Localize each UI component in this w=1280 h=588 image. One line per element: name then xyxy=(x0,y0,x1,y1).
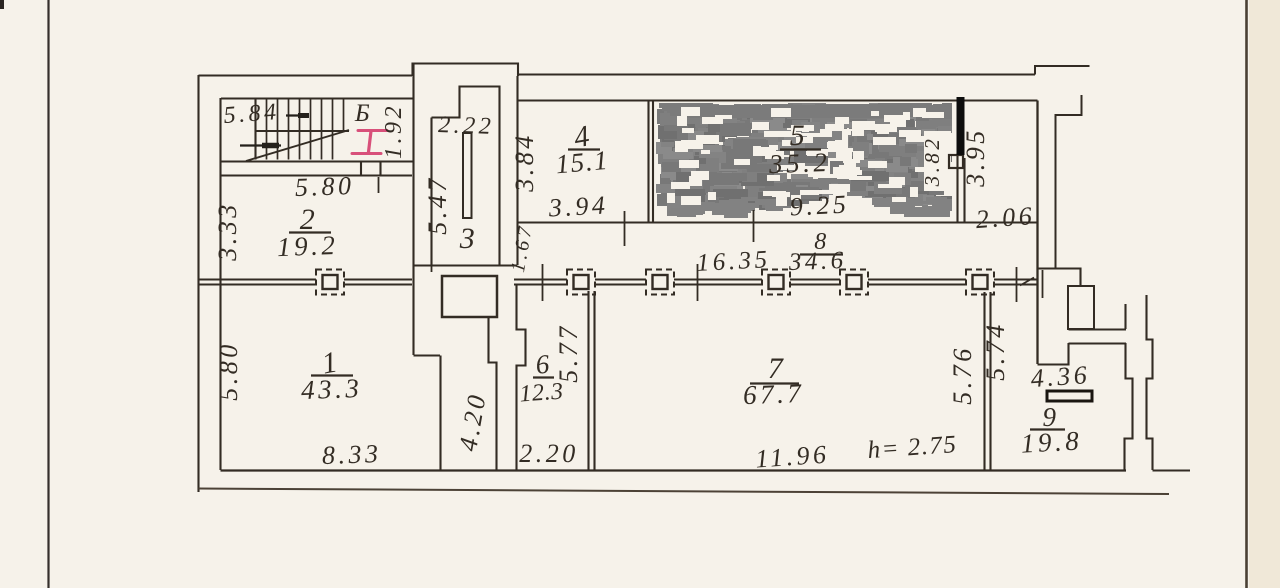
svg-text:12.3: 12.3 xyxy=(519,379,565,408)
svg-text:19.8: 19.8 xyxy=(1020,425,1083,458)
svg-text:16.35: 16.35 xyxy=(696,246,771,277)
svg-text:5.74: 5.74 xyxy=(981,321,1010,381)
svg-text:3.94: 3.94 xyxy=(547,190,609,222)
svg-text:15.1: 15.1 xyxy=(554,145,610,180)
svg-text:5.80: 5.80 xyxy=(214,341,243,401)
svg-text:2.06: 2.06 xyxy=(975,201,1036,234)
svg-text:11.96: 11.96 xyxy=(754,439,830,473)
svg-text:9.25: 9.25 xyxy=(789,189,850,221)
svg-text:Б: Б xyxy=(354,100,373,127)
svg-text:3.95: 3.95 xyxy=(961,127,990,188)
svg-text:1.92: 1.92 xyxy=(381,103,407,159)
svg-text:4.36: 4.36 xyxy=(1030,360,1091,393)
svg-text:6: 6 xyxy=(534,348,554,379)
svg-text:67.7: 67.7 xyxy=(743,378,805,410)
svg-text:2.22: 2.22 xyxy=(438,112,495,140)
svg-text:5.84: 5.84 xyxy=(223,99,281,129)
svg-text:5.76: 5.76 xyxy=(948,345,977,405)
svg-text:5.47: 5.47 xyxy=(423,175,452,235)
svg-text:3.84: 3.84 xyxy=(510,132,539,193)
svg-text:35.2: 35.2 xyxy=(768,147,831,179)
svg-text:8: 8 xyxy=(814,229,830,255)
svg-text:5.80: 5.80 xyxy=(294,171,354,202)
svg-text:8.33: 8.33 xyxy=(321,439,381,470)
svg-text:3.82: 3.82 xyxy=(920,136,944,188)
svg-text:3.33: 3.33 xyxy=(213,201,242,262)
svg-text:43.3: 43.3 xyxy=(301,373,363,405)
svg-text:5.77: 5.77 xyxy=(554,323,583,383)
svg-text:19.2: 19.2 xyxy=(277,230,339,262)
svg-text:2.20: 2.20 xyxy=(519,439,579,468)
svg-text:3: 3 xyxy=(459,222,479,255)
